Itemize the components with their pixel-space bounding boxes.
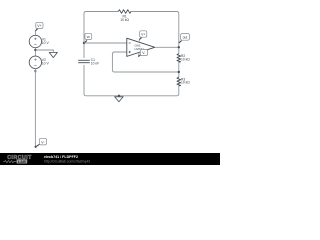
svg-text:V-: V- bbox=[142, 51, 145, 55]
node A dot (inverting input node) bbox=[83, 42, 85, 44]
wire bottom-right (ground tap to R3) bbox=[119, 86, 179, 96]
flag V+ (op-amp top) bbox=[139, 31, 147, 40]
svg-text:V+: V+ bbox=[141, 33, 145, 37]
wire left (node A to C1) bbox=[83, 43, 85, 58]
flag V- (op-amp bottom) bbox=[138, 49, 147, 56]
flag out bbox=[179, 34, 190, 43]
V2 terminal dot bbox=[35, 70, 37, 72]
svg-text:LAB: LAB bbox=[18, 160, 26, 164]
wire to ground tap bbox=[35, 50, 53, 52]
voltage source V1 bbox=[29, 35, 41, 47]
wire V2 down to V- flag bbox=[34, 69, 36, 147]
voltage source V2 bbox=[29, 56, 41, 68]
svg-text:V+: V+ bbox=[37, 24, 41, 28]
resistor R1 bbox=[118, 10, 131, 14]
node dot feedback divider bbox=[178, 71, 180, 73]
wire right (output node to R2) bbox=[178, 47, 180, 53]
svg-text:out: out bbox=[183, 36, 188, 40]
CircuitLab logo bbox=[3, 155, 32, 164]
svg-text:10 V: 10 V bbox=[42, 41, 50, 45]
svg-text:10 V: 10 V bbox=[42, 62, 50, 66]
svg-text:V-: V- bbox=[41, 140, 44, 144]
svg-text:10 nF: 10 nF bbox=[91, 61, 99, 65]
op-amp V+ power pin bbox=[138, 40, 140, 43]
svg-text:10 kΩ: 10 kΩ bbox=[120, 18, 129, 22]
svg-text:vc: vc bbox=[87, 35, 91, 39]
flag V- (bottom of V2 wire) bbox=[36, 138, 47, 147]
op-amp U1 bbox=[127, 38, 155, 56]
resistor R3 bbox=[177, 77, 181, 86]
footer bar bbox=[0, 153, 220, 165]
resistor R2 bbox=[177, 54, 181, 63]
wire noninverting feedback bbox=[112, 52, 178, 72]
ground (bottom of loop) bbox=[115, 96, 124, 102]
svg-text:http://circuitlab.com/c/fa2mq4: http://circuitlab.com/c/fa2mq43 bbox=[44, 160, 90, 164]
wire inverting input bbox=[84, 42, 127, 44]
ground (left) bbox=[49, 52, 57, 57]
svg-text:elecb741 / FLDPFF2: elecb741 / FLDPFF2 bbox=[44, 155, 78, 159]
wire between V1 and V2 bbox=[34, 48, 36, 56]
wire top-left (R1 to node A) bbox=[84, 12, 118, 44]
wire end dot bbox=[35, 146, 37, 148]
wire V1 top lead bbox=[34, 31, 36, 35]
node dot bottom ground tap bbox=[118, 95, 120, 97]
node dot between sources bbox=[34, 49, 36, 51]
wire top-right (R1 to output node) bbox=[131, 12, 179, 48]
capacitor C1 bbox=[78, 60, 90, 62]
svg-text:10 kΩ: 10 kΩ bbox=[181, 81, 190, 85]
wire right (R2 to R3 through divider node) bbox=[178, 62, 180, 77]
node dot output bbox=[178, 46, 180, 48]
svg-text:10 kΩ: 10 kΩ bbox=[181, 58, 190, 62]
wire op-amp output bbox=[155, 46, 179, 48]
flag at inverting node bbox=[84, 33, 92, 43]
wire left-bottom (C1 to ground tap) bbox=[84, 65, 119, 96]
op-amp V- power pin bbox=[137, 52, 140, 56]
flag V+ (top of V1) bbox=[35, 22, 43, 31]
